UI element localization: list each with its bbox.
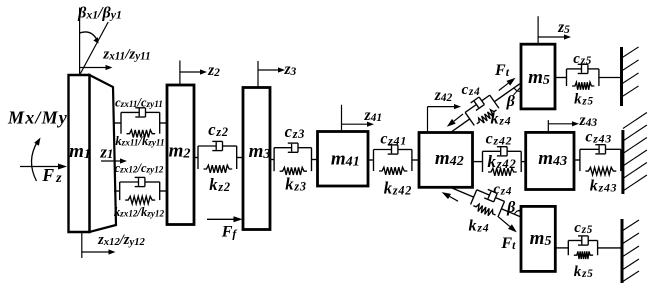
node z5 arrow bbox=[538, 34, 571, 39]
spring cz3/kz3-spring bbox=[280, 167, 307, 175]
spring cz5/kz5 upper-spring bbox=[572, 82, 594, 90]
mass m42 body bbox=[419, 133, 473, 188]
damper cz3/kz3-damper bbox=[274, 143, 311, 152]
wire stub right of cz3/kz3 bbox=[312, 159, 318, 161]
wire stub left of cz5/kz5 lower bbox=[555, 247, 568, 249]
mass m2 body bbox=[167, 85, 194, 225]
node z42 vertical line bbox=[427, 107, 429, 133]
svg-text:kz43: kz43 bbox=[590, 177, 618, 194]
bracket bars of cz5/kz5 upper bbox=[567, 69, 599, 86]
damper cz42/kz42-damper bbox=[483, 147, 522, 156]
spring cz2/kz2-spring bbox=[204, 165, 233, 173]
wire stub left of cz42/kz42 bbox=[473, 161, 483, 163]
wire stub left of cz12/kz12 bbox=[114, 190, 120, 192]
mass m41 body bbox=[318, 132, 369, 187]
damper cz2/kz2-damper bbox=[198, 141, 237, 150]
force Ft arrow (upper-left of lower belt) bbox=[442, 192, 458, 201]
bracket bars of cz41/kz42 bbox=[374, 150, 412, 172]
damper cz5/kz5 lower-damper bbox=[568, 236, 597, 245]
svg-text:Ft: Ft bbox=[494, 62, 510, 79]
node z42 arrow bbox=[428, 104, 462, 109]
node z_x12/z_y12 vertical line bbox=[81, 232, 83, 258]
moment rotation arc arrow bbox=[31, 138, 40, 182]
angle beta_x1/beta_y1 arc arrow bbox=[80, 32, 99, 44]
svg-text:cz42: cz42 bbox=[486, 131, 513, 148]
wire stub right of cz12/kz12 bbox=[160, 190, 167, 192]
node z5 vertical line bbox=[537, 16, 539, 44]
wire stub left of cz43/kz43 bbox=[574, 159, 580, 161]
svg-text:Mx/My: Mx/My bbox=[7, 108, 68, 128]
bracket bars of cz2/kz2 bbox=[198, 146, 237, 169]
wire stub right of cz11/kz11 bbox=[160, 122, 167, 124]
spring cz11/kz11-spring bbox=[127, 130, 156, 138]
wall fixed support (middle) bbox=[621, 130, 624, 194]
wire stub left of cz3/kz3 bbox=[270, 159, 274, 161]
wire stub left of cz2/kz2 bbox=[194, 157, 198, 159]
spring cz41/kz42-spring bbox=[379, 167, 407, 175]
node z2 vertical line bbox=[179, 61, 181, 86]
belt axis line of cz4/kz4 upper bbox=[451, 84, 520, 133]
angle beta_x1/beta_y1 tilted shaft line bbox=[80, 22, 109, 75]
wall fixed support (bottom) bbox=[621, 219, 624, 283]
bracket bars of cz42/kz42 bbox=[483, 151, 522, 172]
damper cz4/kz4 lower-damper bbox=[475, 186, 506, 206]
wire stub right of cz5/kz5 lower bbox=[598, 247, 622, 249]
svg-text:kz4: kz4 bbox=[469, 218, 490, 235]
svg-text:kz4: kz4 bbox=[491, 111, 512, 128]
belt axis line of cz4/kz4 lower bbox=[452, 188, 521, 217]
damper cz43/kz43-damper bbox=[580, 145, 621, 154]
svg-text:β: β bbox=[506, 199, 516, 216]
wire stub left of cz41/kz42 bbox=[368, 159, 374, 161]
spring cz43/kz43-spring bbox=[585, 167, 616, 175]
wire stub right of cz5/kz5 upper bbox=[599, 77, 622, 79]
svg-text:Ff: Ff bbox=[221, 224, 238, 241]
node z3 arrow bbox=[258, 67, 285, 72]
spring cz5/kz5 lower-spring bbox=[574, 251, 593, 259]
force Ff arrow bbox=[207, 216, 243, 222]
node z43 arrow bbox=[548, 121, 579, 126]
mass m5 (lower) body bbox=[521, 206, 555, 271]
node z_x11 arrow bbox=[80, 65, 113, 70]
svg-text:cz43: cz43 bbox=[585, 129, 612, 146]
bracket bars of cz11/kz11 bbox=[121, 112, 160, 133]
mass m5 (upper) body bbox=[521, 44, 555, 109]
mass m1 (input inertia) body bbox=[69, 75, 90, 232]
bracket bars of cz3/kz3 bbox=[274, 148, 311, 172]
node z2 arrow bbox=[180, 69, 207, 74]
beta pointer line (upper) bbox=[514, 88, 520, 95]
mass m3 body bbox=[243, 88, 270, 230]
wall fixed support (top) bbox=[620, 47, 623, 106]
angle beta arc (lower) bbox=[514, 210, 520, 214]
damper cz12/kz12-damper bbox=[120, 177, 160, 186]
wire stub right of cz43/kz43 bbox=[621, 159, 623, 161]
force Ft arrow (lower-right of lower belt) bbox=[498, 216, 517, 232]
bracket bars of cz4/kz4 lower bbox=[471, 190, 505, 216]
beta pointer line (lower) bbox=[517, 210, 521, 212]
bracket bars of cz4/kz4 upper bbox=[465, 95, 499, 125]
damper cz4/kz4 upper-damper bbox=[462, 91, 492, 116]
mass m1 side face (3D) bbox=[90, 75, 117, 232]
wire stub left of cz5/kz5 upper bbox=[555, 77, 567, 79]
bracket bars of cz5/kz5 lower bbox=[568, 241, 597, 256]
svg-text:Ft: Ft bbox=[500, 235, 516, 252]
force Ft arrow (upper-right of upper belt) bbox=[499, 78, 516, 91]
wire stub right of cz41/kz42 bbox=[412, 159, 419, 161]
spring cz4/kz4 lower-spring bbox=[472, 202, 497, 218]
spring cz4/kz4 upper-spring bbox=[475, 107, 499, 127]
svg-text:βx1/βy1: βx1/βy1 bbox=[77, 5, 122, 22]
mass m43 body bbox=[526, 132, 574, 189]
angle beta_x1/beta_y1 reference vertical line bbox=[79, 8, 81, 76]
force Fz axis arrow bbox=[20, 164, 67, 170]
damper cz5/kz5 upper-damper bbox=[567, 64, 599, 73]
node z43 vertical line bbox=[547, 120, 549, 132]
node z41 vertical line bbox=[341, 105, 343, 132]
angle beta arc (upper) bbox=[514, 88, 520, 92]
wire stub right of cz2/kz2 bbox=[237, 157, 243, 159]
node z41 arrow bbox=[342, 122, 375, 127]
svg-text:β: β bbox=[506, 93, 516, 110]
wire stub right of cz42/kz42 bbox=[521, 161, 526, 163]
bracket bars of cz12/kz12 bbox=[120, 182, 160, 200]
bracket bars of cz43/kz43 bbox=[580, 149, 621, 171]
node z_x12 arrow bbox=[82, 249, 116, 254]
node z3 vertical line bbox=[257, 61, 259, 88]
spring cz12/kz12-spring bbox=[125, 196, 155, 204]
node z1 arrow bbox=[101, 158, 127, 163]
spring cz42/kz42-spring bbox=[488, 168, 517, 176]
wire stub left of cz11/kz11 bbox=[113, 122, 121, 124]
damper cz11/kz11-damper bbox=[121, 108, 160, 117]
damper cz41/kz42-damper bbox=[374, 145, 412, 154]
force Ft arrow (upper-left of upper belt) bbox=[447, 114, 463, 127]
